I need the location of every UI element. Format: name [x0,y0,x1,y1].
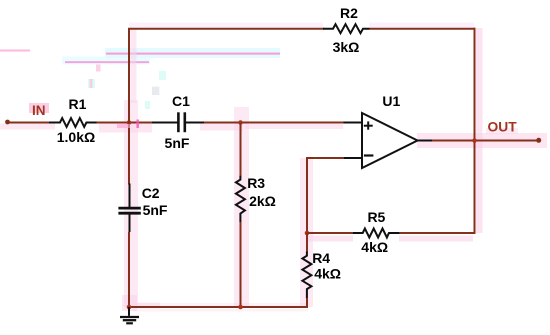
node B junction (240.5,122) [238,120,243,125]
svg-text:IN: IN [32,103,46,118]
node C junction (307,233) [305,231,310,236]
svg-text:R2: R2 [340,5,358,21]
wire: R4 down to ground rail [306,298,308,308]
artifact accents (decorative) [117,120,139,129]
wire: node B down to R3 [240,123,242,177]
capacitor C2 [118,184,140,233]
svg-text:R5: R5 [367,209,385,225]
svg-text:5nF: 5nF [143,202,168,218]
wire: bottom ground rail [128,306,308,308]
node OUT junction (474.5,140.5) [472,138,477,143]
svg-text:4kΩ: 4kΩ [314,266,341,282]
resistor R4 [302,252,311,299]
wire: inverting input run (op-amp - to feedback node C) [307,158,344,234]
resistor R5 [353,229,400,238]
svg-text:U1: U1 [382,93,400,109]
svg-text:2kΩ: 2kΩ [249,193,276,209]
op-amp U1 [344,113,434,168]
wire: R3 down to ground rail [240,222,242,307]
svg-text:C2: C2 [142,185,160,201]
wire: node A down to C2 [128,123,130,185]
wire: top feedback left segment [128,28,324,30]
wire: right vertical (top corner down to R5 wire) [474,28,476,234]
node IN terminal dot [5,120,10,125]
svg-text:R4: R4 [312,250,330,266]
wire: R5 to right vertical [400,232,476,234]
svg-text:3kΩ: 3kΩ [333,39,360,55]
resistor R2 [323,24,370,33]
wire: top feedback right segment [370,28,476,30]
wire: node C down to R4 [306,233,308,253]
svg-text:R1: R1 [69,96,87,112]
svg-text:R3: R3 [247,175,265,191]
svg-text:C1: C1 [172,93,190,109]
capacitor C1 [152,112,204,132]
svg-text:4kΩ: 4kΩ [361,239,388,255]
wire: node C to R5 [307,232,354,234]
svg-text:5nF: 5nF [165,135,190,151]
node E junction (240.5,306) [238,305,243,310]
node OUT terminal dot [536,138,541,143]
svg-text:OUT: OUT [488,120,518,135]
resistor R1 [49,118,97,127]
node D junction (129,306) [127,305,132,310]
node A junction (129,122) [127,120,132,125]
wire: C1 to op-amp + input (through node B) [204,122,344,124]
wire: output to OUT terminal [432,140,539,142]
wire: left vertical feedback riser (node A up to top wire) [128,29,130,123]
wire: IN lead to R1 [8,122,51,124]
ground [120,307,139,323]
wire: R1 to C1 (through node A) [97,122,154,124]
svg-text:1.0kΩ: 1.0kΩ [57,129,95,145]
resistor R3 [236,176,245,223]
wire: C2 down to ground rail [128,232,130,307]
